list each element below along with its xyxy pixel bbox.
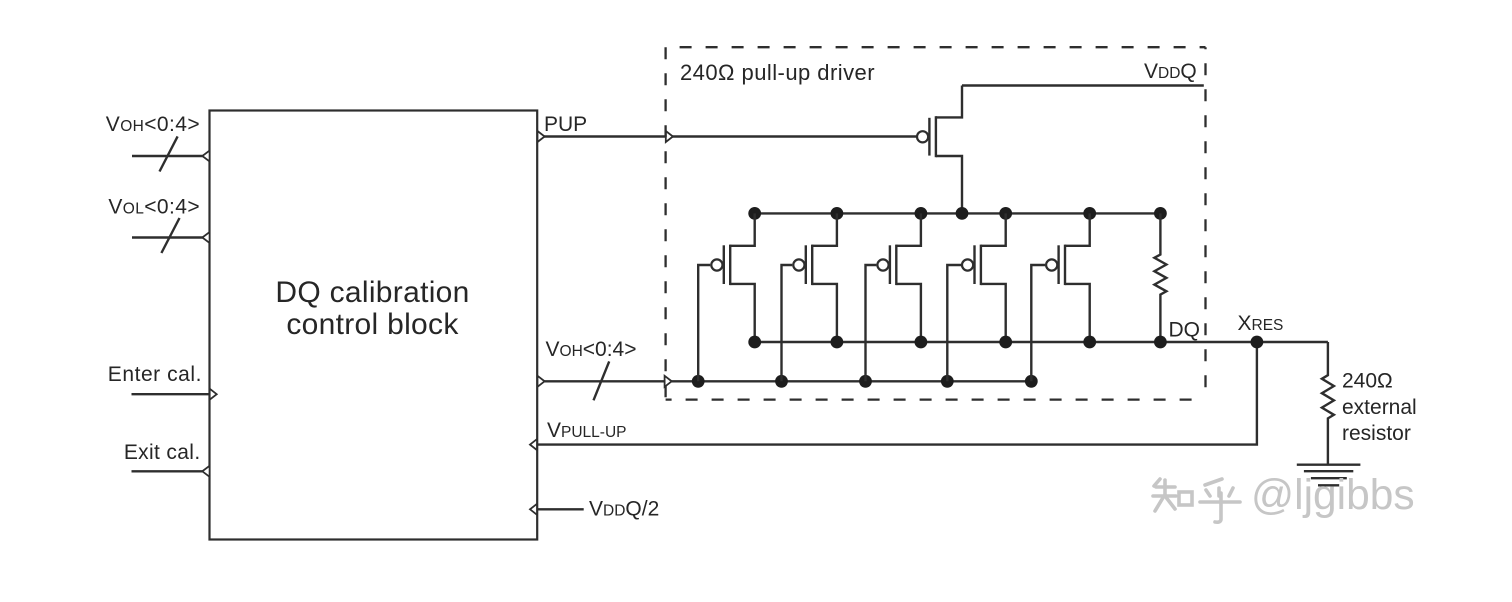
resistor R2 (240 ohm external) <box>1322 342 1417 465</box>
dashed box: 240ohm pull-up driver <box>666 47 1206 399</box>
wire DQ rail <box>755 341 1328 343</box>
pmos Q2 (leg 2) <box>782 213 837 381</box>
wire Enter cal. input <box>132 389 217 400</box>
wire VOH<0:4> gate bus rail <box>537 361 1031 400</box>
resistor R1 (internal leg) <box>1154 213 1166 342</box>
control block U1 (DQ calibration control block) <box>210 111 538 540</box>
svg-text:external: external <box>1342 396 1417 419</box>
svg-text:VOH<0:4>: VOH<0:4> <box>546 338 637 361</box>
junction dots on gate rail <box>692 375 1038 388</box>
wire VPULL-UP feedback (XRES to block) <box>530 342 1257 450</box>
svg-text:Enter cal.: Enter cal. <box>108 363 202 386</box>
wire VDDQ supply rail <box>962 84 1204 86</box>
junction dots on DQ rail <box>748 336 1167 349</box>
watermark zhihu @ljgibbs <box>1153 479 1240 522</box>
pmos Q0 (main pull-up, gate=PUP) <box>917 86 962 214</box>
svg-text:VOL<0:4>: VOL<0:4> <box>108 196 200 219</box>
svg-text:control block: control block <box>286 308 459 341</box>
ground <box>1297 465 1361 486</box>
svg-text:DQ: DQ <box>1169 319 1201 342</box>
pmos Q3 (leg 3) <box>866 213 921 381</box>
wire drain rail (top) <box>755 212 1161 214</box>
wire Exit cal. output <box>132 466 210 477</box>
svg-text:@ljgibbs: @ljgibbs <box>1251 472 1415 519</box>
svg-text:VOH<0:4>: VOH<0:4> <box>106 113 200 136</box>
node XRES <box>1238 312 1284 348</box>
wire PUP (block to pull-up driver gate) <box>537 131 916 142</box>
svg-text:PUP: PUP <box>544 113 587 136</box>
pmos Q5 (leg 5) <box>1031 213 1089 381</box>
svg-text:resistor: resistor <box>1342 422 1411 445</box>
junction dots on drain rail <box>748 207 1167 220</box>
svg-text:240Ω: 240Ω <box>1342 370 1393 393</box>
pmos Q4 (leg 4) <box>947 213 1005 381</box>
pmos Q1 (leg 1) <box>698 213 755 381</box>
svg-text:DQ calibration: DQ calibration <box>275 276 469 309</box>
svg-text:Exit cal.: Exit cal. <box>124 441 201 464</box>
svg-text:240Ω pull-up driver: 240Ω pull-up driver <box>680 60 875 85</box>
wire VOL input bus <box>132 218 210 253</box>
wire VDDQ/2 input <box>530 504 584 515</box>
wire VOH input bus <box>132 136 210 171</box>
